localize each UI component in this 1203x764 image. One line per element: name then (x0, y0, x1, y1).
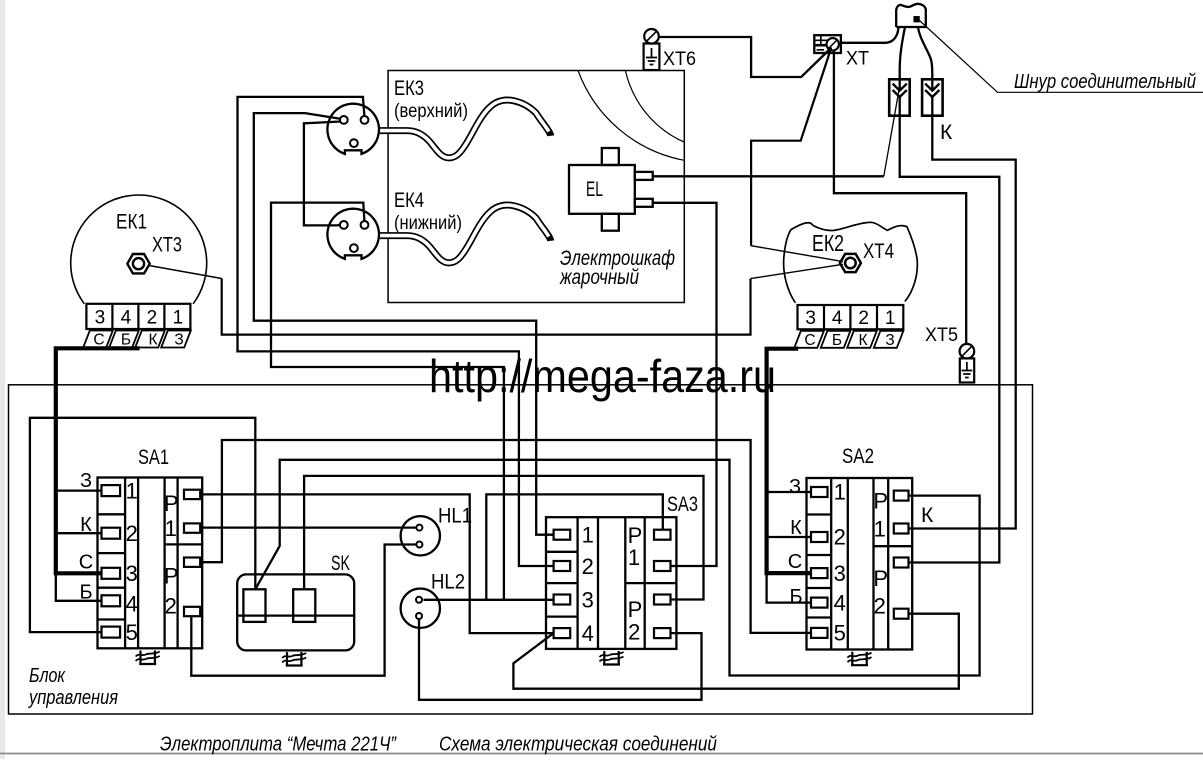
svg-text:SA3: SA3 (667, 493, 698, 516)
wire harness branch К (56, 532, 102, 534)
svg-text:К: К (858, 332, 867, 349)
lamp HL1 (401, 516, 440, 555)
SA3 right terminals (654, 530, 671, 638)
wire plug prong through K to EL lamp (884, 91, 899, 176)
harness EK1 to SA1 (56, 348, 140, 573)
wire SA1 R4 to HL1 bottom (191, 545, 416, 676)
svg-text:К: К (790, 517, 802, 539)
svg-text:Блок: Блок (29, 664, 66, 687)
chassis mount SA2 (848, 652, 872, 666)
label Электрошкаф жарочный (559, 247, 675, 289)
terminal digits EK1 3 4 2 1 (95, 308, 184, 329)
svg-text:1: 1 (165, 516, 177, 541)
svg-text:P: P (164, 491, 179, 516)
svg-text:С: С (79, 552, 93, 574)
heater EK3 tube (380, 100, 551, 158)
svg-text:З: З (174, 332, 183, 349)
page bottom rule (0, 753, 1203, 755)
svg-text:P: P (873, 566, 888, 591)
connector K right (922, 79, 943, 115)
svg-text:4: 4 (121, 308, 132, 329)
SA1 right terminals (184, 490, 200, 617)
svg-text:5: 5 (834, 621, 846, 646)
svg-text:4: 4 (126, 592, 138, 617)
svg-text:ХТ3: ХТ3 (152, 234, 182, 257)
svg-text:Шнур соединительный: Шнур соединительный (1014, 70, 1196, 93)
svg-text:1: 1 (834, 480, 846, 505)
wire EL top pin (653, 175, 884, 177)
svg-text:Б: Б (121, 332, 131, 349)
nut XT4 (840, 254, 861, 272)
svg-text:С: С (93, 332, 104, 349)
svg-text:(верхний): (верхний) (394, 101, 468, 122)
SA2 right terminals (894, 491, 909, 619)
SA1 P1 P2 (164, 491, 179, 619)
plug EK4 (327, 209, 379, 259)
SA3 left terminals (554, 530, 571, 638)
label Блок управления (27, 664, 118, 709)
SA3 P1 P2 (628, 523, 643, 645)
svg-text:ЕК2: ЕК2 (812, 230, 844, 256)
heater EK4 tube (380, 205, 551, 263)
SA2 left terminals (811, 487, 828, 638)
wire plug to XT (841, 27, 899, 43)
svg-text:2: 2 (628, 620, 640, 645)
svg-text:1: 1 (885, 308, 896, 329)
svg-text:EL: EL (586, 178, 603, 201)
burner EK2 body (784, 222, 918, 303)
svg-text:SA1: SA1 (138, 446, 169, 469)
svg-text:З: З (885, 332, 894, 349)
svg-text:ХТ6: ХТ6 (663, 48, 696, 70)
harness EK2 to SA2 (767, 349, 811, 573)
svg-text:К: К (940, 121, 953, 144)
wire harness branch З (56, 489, 102, 491)
svg-text:3: 3 (805, 308, 816, 329)
svg-text:2: 2 (874, 594, 886, 619)
thermal switch SK (237, 574, 354, 650)
svg-text:P: P (164, 564, 179, 589)
svg-text:2: 2 (165, 594, 177, 619)
svg-text:1: 1 (173, 308, 184, 329)
SA1 left terminals (102, 485, 121, 637)
svg-text:З: З (789, 476, 801, 498)
wire SK right contact to SA3 R3 (304, 476, 703, 600)
lead tags EK2 С Б К З (794, 331, 903, 348)
lead letters EK2 (804, 332, 894, 349)
svg-text:3: 3 (95, 308, 106, 329)
svg-text:1: 1 (126, 478, 138, 503)
svg-text:Б: Б (79, 582, 92, 604)
wire XT to EK2 nut (751, 49, 831, 246)
wire SA1 R2 to HL1 (200, 526, 416, 528)
control box Блок управления (9, 385, 1033, 714)
svg-text:1: 1 (628, 545, 640, 570)
svg-text:1: 1 (874, 517, 886, 542)
chassis mount SK (282, 652, 306, 666)
mains plug шнур (896, 4, 926, 27)
wire plug to K right (918, 27, 932, 91)
svg-text:С: С (804, 332, 815, 349)
burner EK1 body (71, 195, 207, 304)
wire EK3 right pin to SA3 L2 (238, 97, 554, 566)
wire EK4 right pin to SA3 L3 net (271, 203, 504, 600)
page left grey strip (0, 0, 5, 759)
svg-text:P: P (873, 489, 888, 514)
wire HL2 bottom to SA3 R4 (419, 619, 702, 700)
switch SA2 box (807, 478, 913, 650)
wire jumper EK3 to EK4 (304, 122, 341, 226)
oven box Электрошкаф жарочный (388, 71, 684, 303)
svg-text:P: P (628, 597, 643, 622)
SA3 digits 1-4 (582, 523, 594, 646)
wire harness branch К SA2 (767, 536, 811, 538)
svg-text:С: С (788, 551, 802, 573)
svg-text:управления: управления (27, 686, 118, 709)
oven door arc inner (625, 71, 684, 143)
terminal digits EK2 3 4 2 1 (805, 308, 895, 329)
svg-text:К: К (921, 504, 934, 527)
svg-text:4: 4 (834, 590, 846, 615)
svg-text:ХТ4: ХТ4 (863, 240, 894, 263)
chassis mount SA1 (136, 651, 160, 665)
wire K right to SA2 R2 (909, 97, 1016, 529)
terminal box EK1 (86, 304, 190, 329)
terminal box EK2 (798, 305, 904, 329)
svg-text:Схема электрическая соединений: Схема электрическая соединений (439, 733, 717, 756)
svg-text:Б: Б (789, 586, 802, 608)
nut XT3 (127, 254, 149, 273)
svg-text:SA2: SA2 (842, 445, 874, 468)
wire SA1 R1 to SA3 L4 (200, 494, 553, 633)
svg-text:3: 3 (582, 588, 594, 613)
svg-text:К: К (80, 514, 92, 536)
wire EL bottom pin to SA3 R2 (653, 203, 717, 566)
wire XT6 to XT (659, 37, 831, 77)
wire XT to XT5 (834, 50, 966, 344)
svg-text:Б: Б (832, 332, 842, 349)
chassis mount SA3 (600, 651, 624, 665)
wire SA3 L4 to SA2 R4 (513, 614, 958, 689)
svg-text:жарочный: жарочный (559, 266, 639, 289)
labels З К С Б at SA2 (788, 476, 803, 608)
lamp EL (569, 148, 653, 231)
SA2 digits 1-5 (834, 480, 846, 646)
svg-text:2: 2 (858, 308, 869, 329)
svg-text:2: 2 (147, 308, 158, 329)
svg-text:ЕК4: ЕК4 (394, 189, 424, 212)
svg-text:З: З (80, 470, 92, 492)
lamp HL2 (401, 589, 440, 628)
wire EK3 left pin to SA3 L1 (254, 113, 554, 535)
connector XT (814, 35, 841, 53)
svg-text:ХТ5: ХТ5 (925, 324, 958, 346)
lead tags EK1 С Б К З (83, 331, 191, 348)
wire plug to K left (900, 27, 905, 91)
lead letters EK1 (93, 332, 183, 349)
SA1 digits 1-5 (126, 478, 138, 645)
svg-text:SK: SK (331, 552, 350, 575)
svg-text:К: К (148, 332, 157, 349)
switch SA1 box (98, 478, 203, 649)
leader шнур соединительный (919, 20, 1203, 92)
svg-text:3: 3 (834, 561, 846, 586)
svg-text:4: 4 (832, 308, 843, 329)
svg-text:1: 1 (582, 523, 594, 548)
SA2 P1 P2 (873, 489, 888, 619)
oven door arc outer (578, 71, 684, 161)
wire HL2 to SA3 L3 (424, 599, 554, 601)
svg-text:Электроплита “Мечта 221Ч”: Электроплита “Мечта 221Ч” (160, 733, 397, 756)
connector K left (889, 79, 910, 115)
wire EK1 nut to EK2 nut (149, 266, 222, 279)
svg-text:HL1: HL1 (438, 505, 472, 528)
svg-text:4: 4 (582, 621, 594, 646)
plug EK3 (327, 104, 379, 154)
wire SA1 R3 to SA2 L5 (200, 440, 811, 633)
svg-text:ЕК1: ЕК1 (116, 211, 147, 234)
svg-text:ЕК3: ЕК3 (394, 77, 424, 100)
svg-text:http://mega-faza.ru: http://mega-faza.ru (429, 350, 776, 402)
svg-text:2: 2 (126, 521, 138, 546)
wire SK left contact to SA2 R1 (255, 460, 979, 676)
wire HL2 net to SA3 R1 (486, 494, 663, 599)
wire K left to SA2 R3 (900, 97, 1000, 563)
wire harness branch З SA2 (767, 491, 811, 493)
switch SA3 box (546, 517, 676, 649)
svg-text:(нижний): (нижний) (394, 213, 462, 234)
svg-text:2: 2 (834, 525, 846, 550)
wire SA1 L5 to SK (30, 418, 255, 632)
terminal XT6 (644, 29, 660, 70)
terminal XT5 (960, 344, 975, 383)
svg-text:HL2: HL2 (431, 571, 465, 594)
svg-text:3: 3 (126, 561, 138, 586)
labels З К С Б at SA1 (79, 470, 93, 604)
wire harness branch Б (56, 573, 102, 601)
svg-text:2: 2 (582, 554, 594, 579)
svg-text:ХТ: ХТ (846, 48, 869, 70)
svg-text:5: 5 (126, 620, 138, 645)
wire harness branch Б SA2 (767, 573, 811, 603)
